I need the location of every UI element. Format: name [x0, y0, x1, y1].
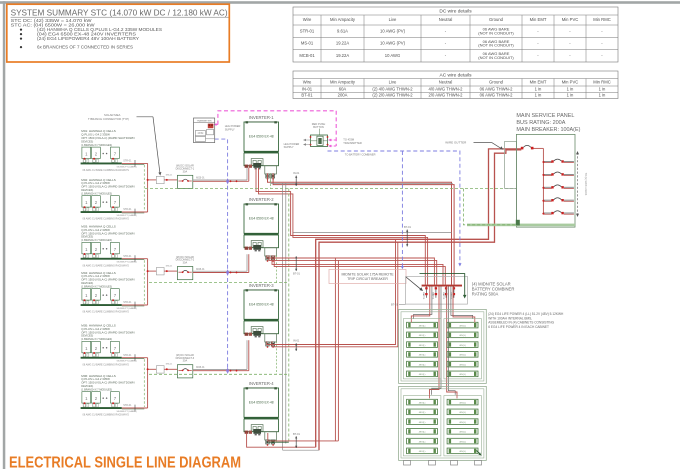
- svg-text:1 in: 1 in: [599, 93, 606, 98]
- svg-text:MIDNITE SOLAR 175A REMOTE: MIDNITE SOLAR 175A REMOTE: [341, 272, 394, 276]
- svg-text:MCB-01: MCB-01: [196, 269, 205, 271]
- transmitter sub box 3: [195, 136, 205, 141]
- svg-text:6 EG4 LIFE POWER 4 IN EACH CAB: 6 EG4 LIFE POWER 4 IN EACH CABINET: [488, 325, 549, 329]
- PV string 2 ground link: [122, 212, 145, 214]
- battery combiner box: [406, 276, 468, 304]
- svg-text:48V(L): 48V(L): [459, 451, 466, 453]
- svg-text:06 AWG CU BARE CLIMBING RACKWA: 06 AWG CU BARE CLIMBING RACKWAYS: [83, 264, 130, 267]
- inverter 1 lower section: [244, 153, 279, 166]
- battery cabinet 2 battery module col1 row5: [407, 438, 438, 444]
- PV string 6 modules: [82, 392, 91, 403]
- PV string 5 ground link: [122, 358, 145, 360]
- svg-text:SUPPLY: SUPPLY: [225, 127, 235, 131]
- svg-text:WIRE GUTTER: WIRE GUTTER: [445, 141, 467, 145]
- svg-text:06 AWG CU BARE CLIMBING RACKWA: 06 AWG CU BARE CLIMBING RACKWAYS: [83, 169, 130, 172]
- svg-text:1 in: 1 in: [599, 86, 606, 91]
- battery cabinet 2 battery module col2 row6: [447, 448, 478, 454]
- AC collection bus L1 to main panel: [316, 149, 522, 447]
- PV string 1 ground bar: [81, 163, 122, 165]
- svg-text:STR-01: STR-01: [123, 404, 132, 407]
- transmitter sub box 2: [195, 131, 205, 136]
- inverter 1 ground drop: [269, 173, 271, 188]
- battery cabinet 2 battery module col1 row1: [407, 399, 438, 405]
- battery cabinet 2 battery module col1 row6: [407, 448, 438, 454]
- inverter 1 box: [244, 122, 279, 151]
- inverter 3 battery cable -: [272, 242, 398, 347]
- panel ground dashed: [463, 189, 515, 225]
- battery feed 2: [430, 287, 440, 395]
- svg-text:Min RMC: Min RMC: [593, 79, 610, 84]
- svg-text:SB-MMLPT (LABEL): SB-MMLPT (LABEL): [117, 410, 137, 413]
- battery feed 1: [411, 287, 430, 320]
- main breaker to bus: [534, 147, 544, 149]
- remote trip breaker label box: [329, 270, 406, 284]
- gutter neutral drop: [516, 188, 518, 220]
- svg-text:BT-01: BT-01: [293, 432, 300, 436]
- svg-text:SB-MMLPT (LABEL): SB-MMLPT (LABEL): [117, 165, 137, 168]
- inverter 2 battery connector: [253, 245, 261, 250]
- inverter 2 battery cable pair B2: [274, 255, 445, 284]
- svg-text:30A: 30A: [183, 360, 188, 363]
- svg-text:Min EMT: Min EMT: [530, 17, 547, 22]
- svg-text:STR-01: STR-01: [300, 28, 315, 33]
- battery cabinet 1 battery module col1 row2: [407, 332, 438, 338]
- T-branch connector 1: [156, 176, 164, 183]
- PV string 2 modules: [82, 196, 91, 207]
- PV string 5 modules: [82, 341, 91, 352]
- svg-text:Live: Live: [389, 17, 397, 22]
- svg-text:30A: 30A: [183, 170, 188, 173]
- inverter 4 lower section: [244, 419, 279, 432]
- svg-text:BT-01: BT-01: [293, 272, 300, 276]
- inverter 1 battery cable +: [256, 168, 425, 284]
- PV string 3 ground bar: [81, 258, 122, 260]
- svg-text:INVERTER-4: INVERTER-4: [249, 381, 274, 386]
- PV string 2 ground bar: [81, 211, 122, 213]
- svg-text:1 in: 1 in: [535, 93, 542, 98]
- svg-text:Ground: Ground: [489, 79, 504, 84]
- svg-text:EG4 6500 EX-48: EG4 6500 EX-48: [249, 303, 274, 307]
- svg-text:BUS RATING: 200A: BUS RATING: 200A: [516, 120, 565, 126]
- branch breaker 2: [543, 173, 551, 175]
- svg-text:ELECTRICAL SINGLE LINE DIAGRAM: ELECTRICAL SINGLE LINE DIAGRAM: [9, 455, 241, 469]
- power supply arrows: [305, 139, 311, 141]
- svg-text:BUTTON: BUTTON: [313, 125, 324, 129]
- inverter 1 neutral run: [269, 173, 271, 183]
- svg-text:(1 BRANCH X 7 MODULES): (1 BRANCH X 7 MODULES): [81, 191, 112, 195]
- svg-text:48V(L): 48V(L): [419, 441, 426, 443]
- svg-text:Neutral: Neutral: [439, 79, 453, 84]
- svg-text:2/0 AWG THWN-2: 2/0 AWG THWN-2: [429, 93, 464, 98]
- battery cabinet 1 battery module col2 row4: [447, 352, 478, 358]
- svg-text:STR-01: STR-01: [123, 354, 132, 357]
- inverter 3 lower section: [244, 321, 279, 334]
- cabinet 2 wiring left: [429, 395, 431, 399]
- svg-text:MAIN SERVICE PANEL: MAIN SERVICE PANEL: [516, 113, 574, 119]
- PV string 1 ground link: [122, 163, 145, 165]
- PV string 5 output wire: [122, 357, 148, 359]
- battery cabinet 2 inner box: [401, 389, 484, 458]
- inverter 2 battery cable pair A2: [269, 255, 437, 284]
- battery feed 3 return: [448, 287, 455, 395]
- DC disconnect 2 box: [177, 267, 192, 280]
- battery cabinet 1 left column box: [403, 319, 441, 379]
- combiner breaker 2: [435, 287, 437, 298]
- PV string 3 output wire: [122, 258, 148, 260]
- inverter 1 DC terminals: [245, 165, 248, 168]
- svg-text:BT-01: BT-01: [301, 93, 313, 98]
- svg-text:MCB-01: MCB-01: [196, 367, 205, 369]
- svg-text:SB-MMLPT (LABEL): SB-MMLPT (LABEL): [117, 214, 137, 217]
- svg-text:DC wire details: DC wire details: [439, 9, 472, 15]
- svg-text:48V(L): 48V(L): [459, 364, 466, 366]
- panel bus vertical: [542, 148, 544, 213]
- svg-text:TO BATTERY COMBINER: TO BATTERY COMBINER: [345, 152, 376, 156]
- branch breaker 3: [543, 186, 551, 188]
- inverter 2/4 tie vertical 2: [337, 260, 339, 441]
- PV string 1 modules: [82, 147, 91, 158]
- AC wire details table: [293, 71, 618, 99]
- battery feed 4 return: [451, 287, 473, 320]
- svg-text:(NOT IN CONDUIT): (NOT IN CONDUIT): [478, 55, 514, 60]
- inverter 1 battery cable -: [259, 168, 428, 284]
- loads arrow line: [577, 153, 579, 216]
- battery cabinet feet: [404, 460, 411, 465]
- ground link to inverter 4: [269, 441, 289, 443]
- PV string 3 ground link: [122, 259, 145, 261]
- svg-text:Min Ampacity: Min Ampacity: [330, 17, 356, 22]
- comm line node 2: [226, 269, 229, 275]
- battery cabinet 2 battery module col1 row2: [407, 409, 438, 415]
- string ground dashed vertical 3: [143, 359, 145, 407]
- svg-text:6x BRANCHES OF 7 CONNECTED IN: 6x BRANCHES OF 7 CONNECTED IN SERIES: [37, 45, 133, 50]
- inverter 2 DC terminals: [245, 247, 248, 250]
- branch breaker 4: [543, 199, 551, 201]
- svg-text:AC wire details: AC wire details: [440, 72, 473, 78]
- svg-text:EG4 6500 EX-48: EG4 6500 EX-48: [249, 401, 274, 405]
- battery cabinet 1 right column box: [444, 319, 482, 379]
- battery cabinet 1 battery module col2 row5: [447, 361, 478, 367]
- svg-text:48V(L): 48V(L): [459, 402, 466, 404]
- inverter 2 ground drop: [276, 255, 278, 282]
- inverter 3 separator: [244, 319, 279, 321]
- svg-text:48V(L): 48V(L): [419, 364, 426, 366]
- svg-text:Min EMT: Min EMT: [530, 79, 547, 84]
- battery cabinet 1 battery module col2 row2: [447, 332, 478, 338]
- T-branch connector 3: [156, 366, 164, 373]
- transmitter box: [194, 118, 215, 143]
- svg-text:Neutral: Neutral: [439, 17, 453, 22]
- page top border: [0, 1, 680, 4]
- svg-text:EG4 6500 EX-48: EG4 6500 EX-48: [249, 217, 274, 221]
- svg-text:EG4 6500 EX-48: EG4 6500 EX-48: [249, 135, 274, 139]
- inverter 3 box: [244, 290, 279, 319]
- branch breaker 1: [543, 160, 551, 162]
- svg-text:IN-01: IN-01: [302, 86, 313, 91]
- comm line node 1: [226, 178, 229, 184]
- svg-text:Min Ampacity: Min Ampacity: [330, 79, 356, 84]
- inverter 2 lower section: [244, 235, 279, 248]
- battery cabinet 2 battery module col2 row3: [447, 419, 478, 425]
- svg-text:(2) 2/0 AWG THWN-2: (2) 2/0 AWG THWN-2: [372, 93, 413, 98]
- svg-text:1 in: 1 in: [567, 86, 574, 91]
- inverter 1 battery connector: [253, 163, 261, 168]
- svg-text:48V(L): 48V(L): [419, 335, 426, 337]
- svg-text:(24) EG4 LIFEPOWER4 48V 100AH: (24) EG4 LIFEPOWER4 48V 100AH BATTERY: [37, 36, 139, 41]
- battery feed 4: [453, 287, 475, 320]
- PV string 6 ground bar: [81, 407, 122, 409]
- DC disconnect 1 breaker: [179, 180, 183, 182]
- svg-text:INVERTER-3: INVERTER-3: [249, 283, 274, 288]
- inverter 4 ground drop: [276, 440, 278, 442]
- svg-text:48V(L): 48V(L): [419, 402, 426, 404]
- inverter 4 box: [244, 388, 279, 417]
- combiner breaker 3: [445, 287, 447, 298]
- main service panel box: [516, 134, 575, 227]
- svg-text:STR-01: STR-01: [123, 301, 132, 304]
- inverter 2 battery cable pair B1: [272, 255, 443, 284]
- DC disconnect 3 box: [177, 365, 192, 378]
- svg-text:BT-01: BT-01: [391, 302, 398, 306]
- svg-text:06 AWG CU BARE CLIMBING RACKWA: 06 AWG CU BARE CLIMBING RACKWAYS: [83, 363, 130, 366]
- wire gutter box: [505, 141, 517, 188]
- svg-text:SB-MMLPT (LABEL): SB-MMLPT (LABEL): [117, 360, 137, 363]
- svg-text:BATT-1: BATT-1: [422, 293, 425, 301]
- inverter 4 neutral bottom: [283, 449, 319, 451]
- string ground dashed vertical 1: [143, 165, 145, 211]
- inverter 4 AC section: [265, 432, 277, 440]
- transmitter comm line blue: [215, 139, 228, 370]
- svg-text:Min PVC: Min PVC: [562, 79, 579, 84]
- svg-text:48V(L): 48V(L): [419, 422, 426, 424]
- svg-text:(2) 4/0 AWG THWN-2: (2) 4/0 AWG THWN-2: [372, 86, 413, 91]
- svg-text:48V(L): 48V(L): [419, 325, 426, 327]
- cabinet 1 wiring left: [410, 319, 412, 322]
- inverter 3 ground drop: [276, 341, 278, 374]
- svg-text:48V(L): 48V(L): [419, 432, 426, 434]
- comm line node 3: [226, 368, 229, 374]
- PV string 6 output wire: [122, 407, 148, 409]
- svg-text:60A: 60A: [339, 86, 347, 91]
- svg-text:TRIP CIRCUIT BREAKER: TRIP CIRCUIT BREAKER: [347, 277, 388, 281]
- PV string 4 output wire: [122, 304, 148, 306]
- svg-text:SYSTEM SUMMARY STC (14.070 kW: SYSTEM SUMMARY STC (14.070 kW DC / 12.18…: [11, 9, 228, 18]
- transmitter sub box 1: [207, 129, 214, 134]
- string pair 1/2 junction wires: [147, 163, 149, 180]
- svg-text:10 AWG (PV): 10 AWG (PV): [380, 28, 406, 33]
- battery cabinet 1 battery module col1 row6: [407, 371, 438, 377]
- svg-text:SB-MMLPT (LABEL): SB-MMLPT (LABEL): [117, 307, 137, 310]
- inverter 4 battery connector: [253, 429, 261, 434]
- svg-text:48V(L): 48V(L): [419, 374, 426, 376]
- svg-text:48V(L): 48V(L): [419, 345, 426, 347]
- svg-text:Wire: Wire: [303, 17, 312, 22]
- battery cabinet 2 battery module col2 row4: [447, 429, 478, 435]
- svg-text:10 AWG (PV): 10 AWG (PV): [380, 41, 406, 46]
- svg-text:48V(L): 48V(L): [459, 374, 466, 376]
- button comm branch to remote trip: [401, 151, 403, 266]
- battery cabinet 1 battery module col2 row3: [447, 342, 478, 348]
- battery cabinet 2 battery module col1 row3: [407, 419, 438, 425]
- svg-text:06 AWG THWN-2: 06 AWG THWN-2: [480, 86, 513, 91]
- svg-text:(1 BRANCH X 7 MODULES): (1 BRANCH X 7 MODULES): [81, 143, 112, 147]
- svg-text:48V(L): 48V(L): [419, 355, 426, 357]
- inverter 1 battery run A1: [268, 173, 452, 284]
- PV string 4 ground link: [122, 305, 145, 307]
- svg-text:4/0 AWG THWN-2: 4/0 AWG THWN-2: [429, 86, 464, 91]
- panel ground bar: [467, 224, 575, 227]
- svg-text:STR-01: STR-01: [123, 208, 132, 211]
- svg-text:48V(L): 48V(L): [459, 422, 466, 424]
- disconnect 3 output wires: [193, 368, 247, 370]
- inverter 4 battery wire 1: [268, 433, 339, 441]
- svg-text:9.61A: 9.61A: [337, 28, 348, 33]
- svg-text:06 AWG CU BARE CLIMBING RACKWA: 06 AWG CU BARE CLIMBING RACKWAYS: [83, 218, 130, 221]
- button comm line to battery combiner: [328, 151, 460, 264]
- battery cabinet 2 battery module col2 row2: [447, 409, 478, 415]
- battery cabinet 2 right column box: [444, 396, 482, 456]
- combiner breaker 4: [453, 287, 455, 298]
- svg-text:433M: 433M: [198, 133, 204, 135]
- svg-text:Wire: Wire: [303, 79, 312, 84]
- inverter 2 battery cable pair A1: [267, 255, 435, 284]
- string ground dashed vertical 2: [143, 260, 145, 304]
- svg-text:48V(L): 48V(L): [459, 412, 466, 414]
- battery feed 1 return: [414, 287, 432, 320]
- inverter 4 separator: [244, 417, 279, 419]
- svg-text:(1 BRANCH X 7 MODULES): (1 BRANCH X 7 MODULES): [81, 238, 112, 242]
- svg-text:MS-01: MS-01: [166, 364, 173, 366]
- disconnect 2 output wires: [193, 270, 247, 272]
- DC disconnect 3 breaker: [179, 369, 183, 371]
- battery cabinet 1 battery module col1 row3: [407, 342, 438, 348]
- svg-text:48V(L): 48V(L): [459, 355, 466, 357]
- svg-text:TRANSMITTER: TRANSMITTER: [343, 141, 362, 145]
- cabinet 1 wiring right: [474, 319, 476, 322]
- svg-text:1 in: 1 in: [535, 86, 542, 91]
- string pair 3/4 junction wires: [147, 259, 149, 271]
- system summary box: [7, 4, 230, 62]
- svg-text:19.22A: 19.22A: [336, 41, 349, 46]
- svg-text:MCB-01: MCB-01: [299, 53, 315, 58]
- cabinet 2 ground arrow: [477, 451, 481, 455]
- svg-text:1 in: 1 in: [567, 93, 574, 98]
- battery cabinet 2 battery module col1 row4: [407, 429, 438, 435]
- transmitter output line: [206, 138, 215, 140]
- battery cabinet 1 inner box: [401, 312, 484, 381]
- inverter 3 DC riser: [246, 340, 248, 369]
- PV string 2 output wire: [122, 211, 148, 213]
- inverter 3 DC terminals: [245, 333, 248, 336]
- svg-text:30A: 30A: [183, 262, 188, 265]
- inverter 4 DC terminals: [245, 431, 248, 434]
- svg-text:TO (E) MAIN LOADS: TO (E) MAIN LOADS: [584, 173, 587, 196]
- PV string 4 modules: [82, 289, 91, 300]
- svg-text:200A: 200A: [338, 93, 348, 98]
- inverter 2 DC riser: [246, 254, 248, 271]
- PV string 4 ground bar: [81, 304, 122, 306]
- svg-text:48V(L): 48V(L): [459, 432, 466, 434]
- red push button box: [311, 135, 328, 147]
- battery cabinet 1 battery module col2 row1: [447, 322, 478, 328]
- inverter 3 battery cable +: [267, 239, 396, 344]
- inverter 2 separator: [244, 233, 279, 235]
- t-branch arrow: [137, 116, 154, 118]
- string pair 5/6 junction wires: [147, 358, 149, 370]
- svg-text:Min RMC: Min RMC: [593, 17, 610, 22]
- ground wire run 2: [149, 282, 289, 284]
- main breaker: [521, 147, 524, 150]
- combiner ground wire: [420, 274, 465, 296]
- inverter 2/4 tie vertical 1: [334, 258, 336, 441]
- svg-text:48V(L): 48V(L): [459, 441, 466, 443]
- combiner bus bar: [422, 285, 462, 287]
- svg-text:19.22A: 19.22A: [336, 53, 349, 58]
- battery cabinet 1 outer box: [399, 309, 487, 383]
- battery cabinet 2 left column box: [403, 396, 441, 456]
- combiner breaker 1: [425, 287, 427, 298]
- AC collection bus L2 to main panel: [319, 150, 521, 450]
- red push button stem: [319, 129, 321, 135]
- svg-text:06 AWG THWN-2: 06 AWG THWN-2: [480, 93, 513, 98]
- svg-text:IN-01: IN-01: [293, 339, 300, 343]
- svg-text:06 AWG CU BARE CLIMBING RACKWA: 06 AWG CU BARE CLIMBING RACKWAYS: [83, 311, 130, 314]
- PV string 3 modules: [82, 242, 91, 253]
- branch breaker 5: [543, 212, 551, 214]
- svg-text:(1 BRANCH X 7 MODULES): (1 BRANCH X 7 MODULES): [81, 337, 112, 341]
- svg-text:STR-01: STR-01: [123, 255, 132, 258]
- ground wire run 3: [149, 373, 289, 375]
- svg-text:INVERTER-2: INVERTER-2: [249, 197, 274, 202]
- inverter 1 AC section: [265, 166, 277, 174]
- svg-text:(NOT IN CONDUIT): (NOT IN CONDUIT): [478, 43, 514, 48]
- svg-text:48V(L): 48V(L): [459, 325, 466, 327]
- inverter 1 battery run A2: [273, 173, 454, 284]
- svg-text:48V(L): 48V(L): [459, 335, 466, 337]
- inverter 2 AC section: [265, 248, 277, 256]
- svg-text:48V(L): 48V(L): [459, 345, 466, 347]
- svg-text:Min PVC: Min PVC: [562, 17, 579, 22]
- DC wire details table: [293, 7, 618, 62]
- band neutral: [293, 232, 452, 234]
- battery feed 2 return: [432, 287, 441, 395]
- battery cabinet 1 battery module col1 row1: [407, 322, 438, 328]
- svg-text:INVERTER-1: INVERTER-1: [249, 115, 274, 120]
- neutral bus vertical 2: [285, 183, 287, 443]
- svg-text:48V(L): 48V(L): [419, 451, 426, 453]
- svg-text:MS-01: MS-01: [301, 41, 314, 46]
- svg-text:(1 BRANCH X 7 MODULES): (1 BRANCH X 7 MODULES): [81, 284, 112, 288]
- svg-text:T BRANCH CONNECTOR (TYP): T BRANCH CONNECTOR (TYP): [88, 117, 129, 121]
- panel ground lug: [516, 220, 520, 226]
- inverter 2 box: [244, 204, 279, 233]
- svg-text:RATING 500A: RATING 500A: [472, 291, 499, 296]
- svg-text:TRANSMITTER: TRANSMITTER: [197, 119, 212, 122]
- battery cabinet 2 battery module col2 row1: [447, 399, 478, 405]
- svg-text:(1 BRANCH X 7 MODULES): (1 BRANCH X 7 MODULES): [81, 387, 112, 391]
- battery cabinet 2 outer box: [399, 386, 487, 460]
- ground bus vertical dashed: [288, 189, 290, 443]
- magenta arrows to button: [330, 139, 336, 141]
- DC disconnect 2 breaker: [179, 271, 183, 273]
- battery feed 3: [447, 287, 457, 395]
- cabinet 2 wiring right: [456, 395, 458, 399]
- svg-text:BATT-1: BATT-1: [442, 293, 445, 301]
- neutral bus vertical 1: [282, 183, 284, 450]
- battery cabinet 2 battery module col2 row5: [447, 438, 478, 444]
- inverter 4 DC terminal wire: [247, 433, 316, 448]
- remote trip arrow: [406, 277, 422, 290]
